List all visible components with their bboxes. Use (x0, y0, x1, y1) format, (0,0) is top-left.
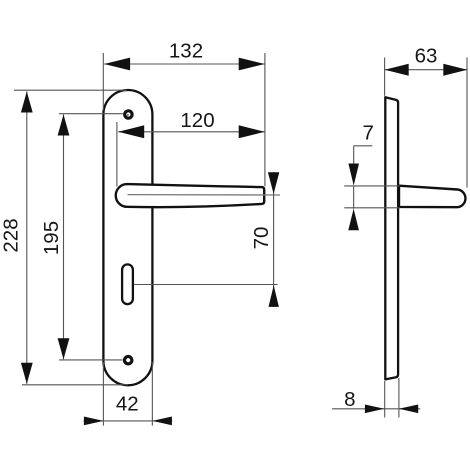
dim 7 extension line bottom (344, 207, 399, 209)
dim 8 arrow right (399, 405, 418, 414)
dim 120 line (118, 131, 265, 133)
dim 63 arrow right (443, 64, 467, 76)
dim 70 extension line keyhole (134, 284, 278, 286)
dim 8 extension line left (384, 381, 386, 418)
lever handle front view (116, 184, 264, 207)
dim 42 arrow left (84, 417, 104, 426)
lever crease line (128, 194, 281, 196)
svg-text:42: 42 (116, 392, 139, 415)
svg-text:70: 70 (250, 227, 273, 250)
dim 132/120 extension line right (264, 53, 266, 186)
top screw (125, 111, 132, 118)
svg-text:7: 7 (362, 122, 373, 145)
keyhole slot (122, 264, 133, 304)
dim 228 extension line bottom (22, 384, 128, 386)
dim 63 line (385, 69, 468, 71)
svg-text:132: 132 (169, 40, 203, 63)
dim 132 extension line left (102, 53, 104, 110)
dim 7 arrow bottom (348, 209, 359, 231)
dim 195 extension line bottom (59, 359, 123, 361)
svg-text:120: 120 (180, 109, 214, 132)
dim 132 line (104, 63, 265, 65)
dim 63 extension line right (466, 58, 468, 188)
dim 63 arrow left (385, 64, 409, 76)
dim 228 extension line top (14, 89, 127, 91)
dim 7 arrow top (348, 164, 359, 186)
svg-text:195: 195 (40, 221, 63, 255)
backplate side view (385, 97, 398, 379)
dim 120 extension line left (116, 122, 118, 187)
dim 132 arrow left (104, 58, 130, 71)
dim 70 line (273, 172, 275, 307)
dim 7 leader vertical (353, 146, 355, 165)
dim 228 arrow bottom (21, 363, 33, 384)
dim 195 arrow top (58, 115, 70, 136)
dim 8 line (332, 408, 420, 410)
dim 42 arrow right (152, 417, 172, 426)
backplate front view (103, 90, 152, 385)
dim 195 line (63, 115, 65, 360)
dim 42 extension line left (102, 362, 104, 426)
lever handle side view (399, 186, 465, 208)
svg-text:63: 63 (415, 45, 438, 68)
dim 7 line between arrows (353, 186, 355, 209)
dim 70 arrow bottom (269, 285, 279, 307)
dim 42 line (84, 420, 173, 422)
dim 63 extension line left (384, 58, 386, 96)
dim 7 extension line top (344, 185, 399, 187)
dim 228 arrow top (21, 92, 33, 113)
dim 8 extension line right (398, 378, 400, 418)
dim 120 arrow left (118, 125, 144, 138)
dim 132 arrow right (239, 58, 265, 71)
svg-text:228: 228 (0, 218, 22, 252)
svg-text:8: 8 (344, 388, 355, 411)
dim 228 line (26, 92, 28, 384)
dim 8 arrow left (365, 405, 384, 414)
dim 70 arrow top (268, 172, 279, 194)
bottom screw (125, 357, 132, 364)
dim 42 extension line right (151, 362, 153, 426)
dim 195 arrow bottom (58, 338, 70, 359)
dim 195 extension line top (59, 113, 123, 115)
dim 120 arrow right (239, 125, 265, 138)
dim 7 leader horizontal (354, 145, 373, 147)
